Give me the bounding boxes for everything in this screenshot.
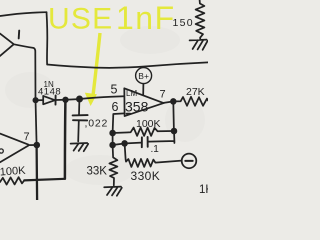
wire: bottom horizontal to 100K xyxy=(24,179,65,181)
wire: pin6 column xyxy=(112,133,114,145)
resistor 100K (bottom left) xyxy=(0,177,24,184)
svg-text:4148: 4148 xyxy=(38,87,61,98)
wire: column down then left to C2 xyxy=(149,131,175,143)
wire: vertical continues to U1B output node xyxy=(36,100,37,145)
svg-text:100K: 100K xyxy=(136,118,161,130)
wire: long horizontal net across page xyxy=(47,62,208,67)
resistor 33K xyxy=(109,145,117,185)
node: junction to cap C .022 xyxy=(77,96,82,101)
capacitor C1 .022 lead xyxy=(78,99,80,115)
diode D1 1N4148 xyxy=(36,99,43,101)
node: pin6 junction upper xyxy=(110,131,115,136)
wire: input net from left edge to corner xyxy=(0,12,47,16)
inverting input mark xyxy=(127,113,131,115)
node: feedback junction xyxy=(172,129,177,134)
op-amp U2 LM358 xyxy=(124,88,163,116)
annotation arrow (yellow) pointing to capacitor node xyxy=(93,33,100,94)
wire: U1B output to vertical node xyxy=(28,144,36,146)
paper background xyxy=(0,0,208,200)
wire xyxy=(66,98,79,101)
svg-text:33K: 33K xyxy=(87,166,108,178)
wire: to pin 5 of U2 xyxy=(80,96,125,99)
node: output junction xyxy=(171,99,176,104)
svg-text:,022: ,022 xyxy=(85,118,109,130)
resistor R 150 (top right) xyxy=(196,0,205,38)
svg-text:B+: B+ xyxy=(138,71,149,81)
node: U1B output junction xyxy=(34,143,39,148)
svg-text:USE: USE xyxy=(48,3,113,36)
node: junction at diode anode xyxy=(33,98,37,102)
svg-text:.1: .1 xyxy=(151,144,160,155)
svg-text:27K: 27K xyxy=(186,86,205,98)
capacitor C2 .1 xyxy=(125,142,142,145)
wire: lower row to 330K branch xyxy=(113,144,125,146)
resistor 100K feedback xyxy=(113,128,174,136)
svg-text:1K: 1K xyxy=(199,184,208,196)
power B+ xyxy=(136,68,152,84)
node: junction to thick vertical branch xyxy=(63,98,68,103)
resistor 330K xyxy=(125,143,182,167)
svg-text:1nF: 1nF xyxy=(116,0,176,36)
svg-text:100K: 100K xyxy=(0,165,27,179)
wire: vertical drop to long horizontal net xyxy=(46,12,49,64)
svg-text:7: 7 xyxy=(160,89,166,101)
U1B input mark xyxy=(0,149,3,153)
wire: U2 output xyxy=(164,102,173,103)
node: pin6 junction lower xyxy=(110,143,115,148)
svg-text:150: 150 xyxy=(173,17,194,29)
node: 330K branch junction xyxy=(122,141,127,146)
wire: output column down xyxy=(172,101,175,130)
resistor 27K xyxy=(173,97,208,106)
wire: pin 6 stub xyxy=(113,113,125,132)
svg-text:5: 5 xyxy=(111,83,118,97)
ground (under 33K) xyxy=(104,186,121,189)
ground (under C1) xyxy=(71,142,88,145)
pin 1 label tick xyxy=(18,31,21,39)
op-amp U1B (bottom left, clipped) xyxy=(0,134,28,163)
ground (under 150) xyxy=(190,38,207,41)
svg-text:LM: LM xyxy=(126,89,137,98)
wire: vertical continues to bottom edge xyxy=(35,145,38,200)
op-amp U1A (top left, clipped) xyxy=(0,34,13,56)
svg-text:6: 6 xyxy=(112,100,119,114)
svg-text:358: 358 xyxy=(125,99,149,115)
svg-text:330K: 330K xyxy=(131,169,161,183)
wire: U1A output right then down long vertical xyxy=(13,44,35,100)
wire: thick vertical branch down to 100K xyxy=(64,100,67,179)
svg-text:7: 7 xyxy=(24,131,30,143)
terminal: negative output circle xyxy=(182,154,197,169)
